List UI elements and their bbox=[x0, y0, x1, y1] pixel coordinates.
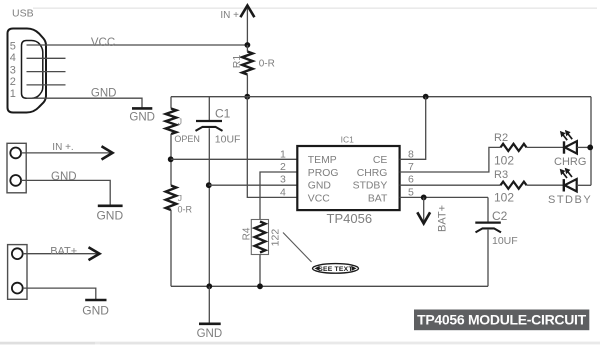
svg-text:1: 1 bbox=[280, 148, 286, 160]
svg-text:3: 3 bbox=[280, 174, 286, 186]
op IC U1 body TP4056 bbox=[297, 146, 399, 210]
svg-text:10UF: 10UF bbox=[215, 134, 241, 146]
CON2 pin 1 circle bbox=[12, 248, 23, 259]
svg-text:GND: GND bbox=[91, 88, 117, 100]
junction left rail / pin1 wire bbox=[168, 156, 174, 162]
ground symbol bottom center bbox=[199, 322, 221, 325]
svg-text:R4: R4 bbox=[241, 227, 252, 240]
power flag IN+ arrow at top bbox=[246, 7, 248, 46]
connector USB inner shell bbox=[22, 41, 43, 99]
wire CHRG LED anode to right rail bbox=[577, 146, 591, 148]
svg-text:IN +.: IN +. bbox=[52, 142, 73, 153]
junction R1 bottom / top rail bbox=[244, 94, 250, 100]
junction CE wire / top rail bbox=[423, 94, 429, 100]
wire USB pin 4 stub bbox=[27, 57, 66, 59]
resistor R1 bbox=[246, 45, 248, 52]
CON1 pin 2 circle bbox=[10, 175, 21, 186]
ground symbol at CON1 bbox=[98, 205, 123, 208]
wire right rail to LED anodes bbox=[590, 97, 592, 186]
svg-text:CE: CE bbox=[373, 155, 388, 166]
note SEE TEXT ellipse bbox=[313, 264, 359, 274]
svg-text:J: J bbox=[178, 117, 182, 127]
wire IC pin 1 (TEMP) to left rail bbox=[171, 158, 298, 160]
svg-text:J: J bbox=[178, 193, 182, 203]
svg-text:8: 8 bbox=[408, 148, 414, 160]
power flag BAT+ (down arrow) bbox=[423, 197, 425, 222]
capacitor C1 bottom lead down to ground rail bbox=[208, 128, 210, 286]
wire top rail bbox=[171, 96, 591, 98]
title bar TP4056 MODULE-CIRCUIT bbox=[414, 310, 589, 331]
svg-text:STDBY: STDBY bbox=[548, 194, 592, 206]
svg-text:USB: USB bbox=[12, 8, 34, 20]
svg-text:GND: GND bbox=[96, 209, 123, 223]
svg-text:4: 4 bbox=[280, 186, 286, 198]
svg-text:OPEN: OPEN bbox=[174, 134, 200, 144]
svg-text:GND: GND bbox=[82, 304, 109, 318]
svg-text:102: 102 bbox=[494, 191, 514, 205]
LED CHRG bbox=[560, 130, 577, 154]
junction BAT wire / BAT+ flag bbox=[421, 195, 427, 201]
ground symbol at USB bbox=[132, 107, 152, 110]
svg-text:C1: C1 bbox=[215, 106, 231, 120]
svg-text:CHRG: CHRG bbox=[357, 168, 388, 179]
svg-text:GND: GND bbox=[308, 181, 331, 192]
capacitor C2 plates bbox=[475, 221, 501, 223]
svg-text:IC1: IC1 bbox=[341, 135, 355, 145]
svg-text:5: 5 bbox=[10, 40, 16, 52]
svg-text:5: 5 bbox=[408, 186, 414, 198]
svg-text:1: 1 bbox=[10, 88, 16, 100]
resistor R4 body box bbox=[251, 220, 268, 255]
CON1 pin 1 circle bbox=[10, 148, 21, 159]
wire IC pin 7 (CHRG) to R2 bbox=[400, 147, 501, 172]
svg-text:VCC: VCC bbox=[308, 193, 330, 204]
capacitor C2 top lead bbox=[487, 197, 489, 221]
svg-text:VCC: VCC bbox=[91, 37, 115, 49]
wire IC pin 8 (CE) up to top rail bbox=[400, 97, 426, 160]
junction C1 lead / pin3 wire bbox=[206, 182, 212, 188]
wire USB pin 2 stub bbox=[27, 84, 66, 86]
connector USB outer shell bbox=[8, 29, 47, 113]
wire IC pin 6 (STDBY) to R3 bbox=[400, 184, 501, 186]
svg-text:IN +: IN + bbox=[220, 10, 239, 21]
wire IC pin 3 (GND) to C1 node bbox=[209, 184, 297, 186]
resistor R3 bbox=[501, 182, 527, 189]
svg-text:0-R: 0-R bbox=[259, 59, 275, 70]
pointer line to SEE TEXT note bbox=[283, 233, 312, 263]
svg-text:7: 7 bbox=[408, 161, 414, 173]
wire CON2 pin2 GND bbox=[23, 288, 96, 299]
svg-text:R1: R1 bbox=[231, 55, 243, 69]
svg-text:102: 102 bbox=[494, 154, 514, 168]
wire VCC rail down to IC pin 4 bbox=[247, 97, 297, 198]
svg-text:GND: GND bbox=[51, 171, 77, 183]
svg-text:2: 2 bbox=[10, 76, 16, 88]
wire bottom ground rail bbox=[171, 285, 488, 287]
svg-text:C2: C2 bbox=[492, 209, 508, 223]
svg-text:TP4056: TP4056 bbox=[327, 211, 373, 226]
svg-text:0-R: 0-R bbox=[178, 205, 193, 215]
svg-text:CHRG: CHRG bbox=[554, 156, 586, 168]
wire IC pin 5 (BAT) to C2 bbox=[400, 196, 488, 198]
wire ground stem (bottom center) bbox=[208, 286, 210, 323]
connector CON1 (IN) body bbox=[7, 143, 26, 193]
svg-text:BAT+: BAT+ bbox=[50, 246, 77, 258]
wire R2 to CHRG LED cathode bbox=[527, 146, 564, 148]
scan artifact top edge line bbox=[33, 7, 597, 9]
junction VCC / R1 top bbox=[245, 42, 251, 48]
svg-text:GND: GND bbox=[197, 328, 223, 340]
resistor R2 bbox=[501, 144, 527, 151]
junction ground rail / R4 branch bbox=[257, 283, 263, 289]
wire CON2 pin1 with BAT+ arrow bbox=[23, 253, 98, 255]
wire IC pin 2 (PROG) to R4 top bbox=[260, 172, 297, 220]
svg-text:R2: R2 bbox=[494, 132, 508, 144]
wire CON1 pin2 GND bbox=[21, 180, 110, 204]
svg-text:R3: R3 bbox=[494, 169, 508, 181]
junction CHRG LED / right rail bbox=[587, 145, 593, 151]
svg-text:TP4056 MODULE-CIRCUIT: TP4056 MODULE-CIRCUIT bbox=[417, 312, 586, 328]
capacitor C1 plates bbox=[196, 120, 222, 122]
svg-text:BAT: BAT bbox=[368, 193, 388, 204]
svg-text:PROG: PROG bbox=[308, 168, 339, 179]
wire STDBY LED anode to right rail end bbox=[577, 184, 591, 186]
svg-text:BAT+: BAT+ bbox=[437, 205, 449, 232]
LED STDBY bbox=[560, 168, 577, 192]
resistor OPEN bbox=[166, 109, 177, 135]
svg-text:2: 2 bbox=[280, 161, 286, 173]
wire left rail (top segment) bbox=[170, 97, 172, 109]
wire net VCC from USB pin 5 to R1 top bbox=[27, 44, 248, 46]
resistor 0-R (left rail) bbox=[166, 186, 177, 211]
resistor R4 bbox=[255, 222, 266, 253]
svg-text:SEE TEXT: SEE TEXT bbox=[318, 266, 353, 273]
wire USB pin 3 stub bbox=[27, 71, 66, 73]
svg-text:3: 3 bbox=[10, 64, 16, 76]
wire R3 to STDBY LED cathode bbox=[527, 184, 563, 186]
svg-text:GND: GND bbox=[129, 112, 155, 124]
junction ground rail / C1 branch bbox=[206, 283, 212, 289]
svg-text:10UF: 10UF bbox=[492, 235, 518, 247]
svg-text:STDBY: STDBY bbox=[353, 181, 388, 192]
wire R4 bottom to ground rail bbox=[259, 255, 261, 287]
connector CON2 (BAT) body bbox=[8, 245, 27, 300]
scan artifact bottom edge band bbox=[0, 342, 600, 345]
ground symbol at CON2 bbox=[85, 299, 106, 302]
svg-text:122: 122 bbox=[270, 229, 282, 247]
svg-text:TEMP: TEMP bbox=[308, 155, 337, 166]
wire left rail (bottom segment) bbox=[170, 210, 172, 286]
svg-text:6: 6 bbox=[408, 174, 414, 186]
wire left rail (middle segment) bbox=[170, 134, 172, 186]
capacitor C1 top lead bbox=[208, 97, 210, 121]
CON2 pin 2 circle bbox=[12, 283, 23, 294]
capacitor C2 bottom lead bbox=[487, 230, 489, 287]
wire USB pin 1 GND bbox=[27, 98, 143, 107]
svg-text:4: 4 bbox=[10, 52, 16, 64]
wire CON1 pin1 with IN+ arrow bbox=[21, 152, 110, 154]
